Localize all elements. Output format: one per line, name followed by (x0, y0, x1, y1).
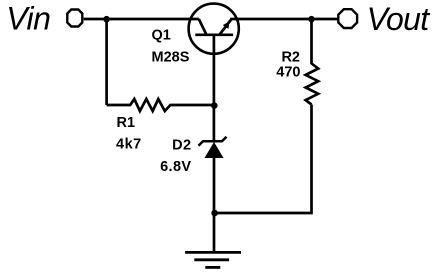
ground (185, 252, 241, 267)
wire Vin terminal to Q1 collector (84, 18, 199, 21)
svg-text:4k7: 4k7 (116, 136, 142, 152)
resistor R2 (306, 19, 319, 105)
terminal Vout (338, 9, 357, 28)
junction node Vout / R2 (308, 16, 315, 23)
svg-text:Q1: Q1 (152, 27, 171, 43)
transistor Q1 (NPN, base down) (189, 4, 239, 58)
svg-text:Vout: Vout (367, 1, 431, 37)
wire Q1 emitter to Vout terminal (230, 18, 337, 21)
svg-text:6.8V: 6.8V (160, 159, 191, 175)
junction node ground / R2 (211, 210, 218, 217)
svg-text:R2: R2 (281, 49, 300, 65)
svg-text:M28S: M28S (152, 49, 190, 65)
resistor R1 (107, 99, 215, 111)
wire junction down to R1 left (105, 19, 108, 105)
wire bottom junction to R2 bottom (214, 105, 312, 214)
wire junction to ground (213, 213, 216, 252)
svg-text:Vin: Vin (6, 1, 50, 37)
wire Q1 base to D2 cathode (213, 58, 216, 141)
svg-text:R1: R1 (117, 115, 136, 131)
svg-text:D2: D2 (172, 138, 191, 154)
junction node base / R1 (211, 102, 218, 109)
wire D2 anode to bottom junction (213, 158, 216, 213)
svg-text:470: 470 (276, 65, 300, 81)
terminal Vin (67, 10, 82, 27)
zener diode D2 (199, 137, 227, 158)
junction node Vin / R1 (103, 16, 110, 23)
